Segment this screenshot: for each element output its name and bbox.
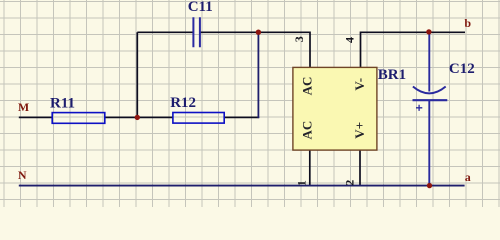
svg-text:M: M [18,100,29,114]
wire R12 right to corner [224,116,259,118]
capacitor C12 [413,32,475,186]
wire pin 1 to bottom net [309,150,311,186]
svg-text:C12: C12 [449,61,475,77]
capacitor C11 [188,0,213,47]
svg-text:C11: C11 [188,0,213,15]
wire top net C11 to pin 3 [200,32,310,67]
resistor R12 [170,95,224,123]
resistor R11 [50,95,105,123]
bridge rectifier U BR1 [293,67,406,150]
svg-text:4: 4 [343,37,357,43]
svg-text:V-: V- [352,78,367,91]
svg-text:R11: R11 [50,95,75,111]
wire pin 4 to b [361,32,466,67]
wire top net left of C11 [137,31,193,33]
svg-text:2: 2 [342,180,356,186]
wire junction down to mid net [136,32,138,117]
svg-text:N: N [18,168,27,182]
svg-text:V+: V+ [352,122,367,139]
wire pin 2 to bottom net [359,150,361,186]
junction dot mid net R11/R12 [135,115,140,120]
junction dot top net / C12 [426,29,431,34]
junction dot top net / R12 [256,30,261,35]
junction dot bottom net / C12 [427,183,432,188]
wire M to R11 [19,116,52,118]
svg-text:R12: R12 [170,95,196,111]
svg-text:a: a [465,170,471,184]
svg-text:b: b [464,16,471,30]
svg-text:AC: AC [300,121,315,140]
wire bottom net N to a [19,185,465,187]
wire corner up to top net [257,32,259,118]
svg-text:3: 3 [292,36,306,42]
svg-text:AC: AC [299,77,314,96]
svg-text:BR1: BR1 [378,67,406,83]
wire R11 to R12 [105,116,173,118]
svg-text:1: 1 [295,180,309,186]
